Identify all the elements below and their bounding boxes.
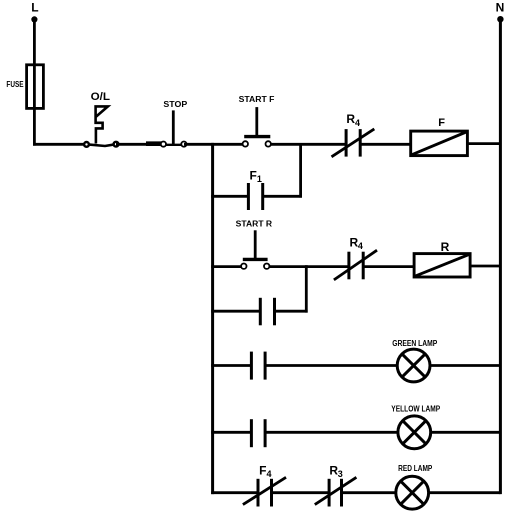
wire — [305, 265, 308, 312]
wire — [430, 364, 500, 367]
overload relay O/L — [84, 91, 118, 147]
contact R4 rung1 (NC) — [332, 112, 375, 157]
lamp GREEN LAMP — [392, 339, 438, 382]
wire — [263, 195, 302, 198]
svg-text:F: F — [250, 168, 257, 182]
pushbutton START F (NO) — [239, 95, 275, 147]
svg-text:N: N — [496, 1, 505, 15]
svg-text:START R: START R — [236, 220, 273, 229]
wire — [33, 143, 87, 146]
fuse FUSE — [6, 65, 43, 109]
wire — [431, 431, 501, 434]
svg-text:STOP: STOP — [163, 100, 188, 109]
wire — [499, 19, 502, 494]
pushbutton STOP (NC) — [146, 100, 188, 147]
wire — [211, 195, 248, 198]
contact R3 (NC) — [315, 464, 357, 507]
pushbutton START R (NO) — [236, 220, 273, 269]
node N — [496, 1, 505, 23]
wire — [211, 143, 243, 146]
wire — [33, 19, 36, 145]
svg-text:RED LAMP: RED LAMP — [398, 464, 433, 473]
svg-text:F: F — [438, 117, 445, 129]
contact R4 rung2 (NC) — [334, 235, 377, 280]
node L — [31, 1, 38, 23]
wire — [467, 142, 500, 145]
wire — [271, 143, 346, 146]
contact yellow lamp (NO) — [251, 419, 265, 447]
svg-text:FUSE: FUSE — [6, 80, 24, 89]
wire — [116, 143, 147, 146]
wire — [184, 143, 214, 146]
wire — [211, 364, 251, 367]
lamp YELLOW LAMP — [391, 405, 440, 449]
svg-text:4: 4 — [267, 469, 272, 479]
wire — [272, 491, 330, 494]
wire — [363, 265, 414, 268]
svg-text:START F: START F — [239, 95, 275, 104]
coil F — [411, 117, 468, 156]
wire — [342, 491, 396, 494]
wire — [360, 143, 411, 146]
wire — [211, 310, 260, 313]
wire — [265, 364, 397, 367]
svg-text:O/L: O/L — [91, 91, 111, 103]
wire — [265, 431, 398, 434]
wire — [429, 491, 501, 494]
svg-text:4: 4 — [358, 241, 363, 251]
contact F1 (NO) — [248, 168, 262, 210]
svg-text:F: F — [259, 464, 266, 478]
wire — [299, 143, 302, 198]
wire — [211, 431, 251, 434]
wire — [470, 265, 500, 268]
wire — [211, 143, 214, 494]
svg-text:GREEN LAMP: GREEN LAMP — [392, 339, 438, 348]
lamp RED LAMP — [396, 464, 433, 509]
wire — [211, 265, 242, 268]
svg-text:YELLOW LAMP: YELLOW LAMP — [391, 405, 440, 414]
wire — [269, 265, 349, 268]
contact green lamp (NO) — [251, 352, 265, 380]
contact F4 (NC) — [243, 464, 286, 507]
svg-text:1: 1 — [257, 174, 262, 184]
wire — [211, 491, 258, 494]
svg-text:4: 4 — [355, 118, 360, 128]
svg-text:3: 3 — [338, 469, 343, 479]
coil R — [414, 240, 470, 277]
contact R seal-in (NO) — [260, 298, 274, 326]
svg-text:L: L — [31, 1, 38, 15]
svg-text:R: R — [441, 240, 450, 254]
wire — [275, 310, 308, 313]
